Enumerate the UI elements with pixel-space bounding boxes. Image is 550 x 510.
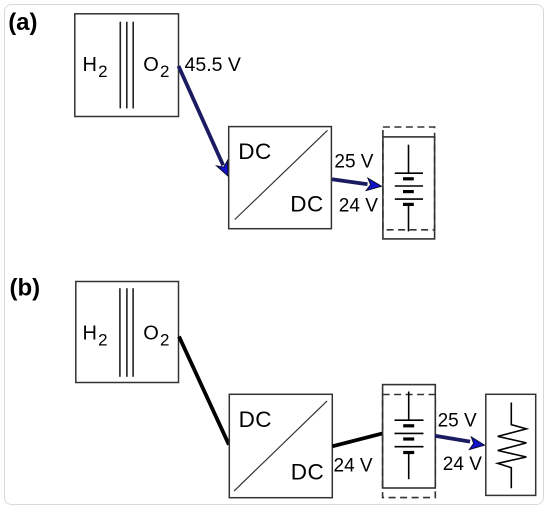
value label 25 V (a) bbox=[334, 152, 373, 173]
label H2 anode (b) bbox=[83, 323, 108, 350]
DC/DC converter (a) bbox=[229, 127, 332, 229]
value label 24 V (a) bbox=[339, 195, 378, 216]
label DC output (a) bbox=[290, 192, 323, 217]
label H2 anode (a) bbox=[83, 54, 108, 81]
value label 24 V converter output (b) bbox=[334, 456, 373, 477]
label (a) bbox=[8, 9, 37, 36]
svg-text:(a): (a) bbox=[8, 9, 37, 36]
svg-text:24 V: 24 V bbox=[443, 454, 482, 475]
svg-text:25 V: 25 V bbox=[438, 411, 477, 432]
label O2 cathode (a) bbox=[143, 54, 169, 81]
battery outline solid (a) bbox=[383, 137, 435, 239]
svg-text:24 V: 24 V bbox=[334, 456, 373, 477]
svg-text:(b): (b) bbox=[10, 274, 41, 301]
svg-text:DC: DC bbox=[239, 407, 272, 432]
value label 25 V (b) bbox=[438, 411, 477, 432]
label DC input (b) bbox=[239, 407, 272, 432]
value label 45.5 V bbox=[185, 54, 241, 76]
value label 24 V load (b) bbox=[443, 454, 482, 475]
label DC input (a) bbox=[238, 139, 271, 164]
svg-text:DC: DC bbox=[291, 459, 324, 484]
battery outline dashed (a) bbox=[383, 127, 435, 230]
label (b) bbox=[10, 274, 41, 301]
membrane lines (a) bbox=[120, 22, 133, 109]
wire fuel cell to converter (b) bbox=[179, 336, 229, 444]
svg-text:DC: DC bbox=[238, 139, 271, 164]
svg-text:25 V: 25 V bbox=[334, 152, 373, 173]
svg-text:24 V: 24 V bbox=[339, 195, 378, 216]
battery symbol (a) bbox=[395, 145, 423, 232]
resistor symbol bbox=[498, 403, 527, 489]
label O2 cathode (b) bbox=[143, 323, 169, 350]
wire arrow battery to load (b) bbox=[435, 436, 485, 450]
DC/DC converter (b) bbox=[229, 394, 332, 497]
wire arrow converter to battery (a) bbox=[332, 178, 382, 190]
label DC output (b) bbox=[291, 459, 324, 484]
membrane lines (b) bbox=[120, 288, 133, 377]
wire arrow fuel cell to converter (a) bbox=[179, 66, 229, 176]
fuel cell stack (b) bbox=[76, 282, 179, 383]
battery symbol (b) bbox=[395, 392, 424, 480]
svg-text:45.5 V: 45.5 V bbox=[185, 54, 241, 76]
svg-text:DC: DC bbox=[290, 192, 323, 217]
battery outline solid (b) bbox=[383, 385, 436, 488]
battery outline dashed (b) bbox=[383, 395, 436, 498]
wire converter to battery (b) bbox=[332, 433, 382, 446]
load resistor box (b) bbox=[486, 394, 536, 495]
fuel cell stack (a) bbox=[75, 14, 179, 117]
